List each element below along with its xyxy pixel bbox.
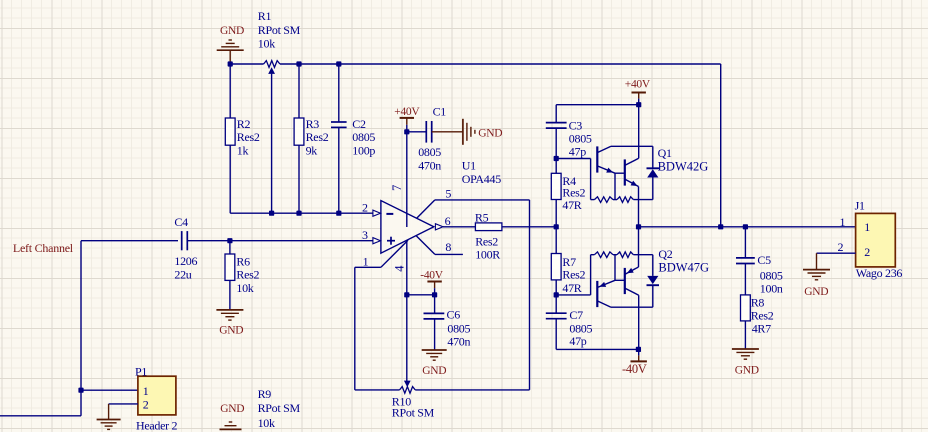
- svg-text:0805: 0805: [418, 145, 441, 159]
- label Q1: [658, 146, 709, 174]
- svg-text:1206: 1206: [174, 254, 197, 268]
- svg-text:1k: 1k: [237, 143, 249, 157]
- svg-text:GND: GND: [422, 365, 446, 377]
- svg-text:0805: 0805: [760, 268, 783, 282]
- pin 4 number: [392, 265, 406, 272]
- capacitor C3: [546, 105, 567, 159]
- junction inverting rail at R3: [296, 211, 301, 216]
- resistor R4: [551, 159, 561, 227]
- op-amp U1 OPA445 triangle: [381, 201, 434, 254]
- svg-text:470n: 470n: [447, 334, 470, 348]
- svg-text:2: 2: [143, 397, 149, 411]
- label Q2: [658, 247, 709, 275]
- resistor R2: [225, 64, 235, 213]
- pin 5 wire (offset): [416, 200, 529, 219]
- wire +40V rail top (C3 corner to Q1 collector): [556, 104, 639, 106]
- wire input to P1 pin1: [81, 389, 138, 391]
- svg-text:-40V: -40V: [420, 269, 443, 281]
- junction top rail at C2: [336, 61, 341, 66]
- svg-text:Res2: Res2: [306, 130, 329, 144]
- svg-text:47p: 47p: [569, 334, 586, 348]
- svg-text:Q1: Q1: [658, 146, 672, 160]
- net label Left Channel: [13, 241, 74, 255]
- junction top rail at R3: [296, 61, 301, 66]
- junction -40V node: [432, 292, 437, 297]
- power port +40V (output stage): [625, 79, 651, 105]
- label R5: [475, 210, 500, 261]
- transistor Q1 BDW42G: [591, 146, 659, 227]
- junction top rail at R2/GND: [228, 61, 233, 66]
- svg-text:GND: GND: [220, 403, 244, 415]
- svg-text:GND: GND: [735, 364, 759, 376]
- svg-text:0805: 0805: [569, 132, 592, 146]
- pin 5 number: [445, 187, 451, 201]
- potentiometer R1: [264, 61, 280, 214]
- capacitor C6: [424, 295, 445, 350]
- svg-text:1: 1: [143, 384, 149, 398]
- junction inverting rail at R1 wiper: [269, 211, 274, 216]
- svg-text:10k: 10k: [258, 37, 275, 51]
- svg-text:Left Channel: Left Channel: [13, 241, 74, 255]
- svg-text:2: 2: [864, 245, 870, 259]
- wire C4 to op-amp pin 3: [230, 240, 374, 242]
- pin 1 number: [363, 255, 369, 269]
- label Header 2: [136, 418, 178, 432]
- svg-text:-40V: -40V: [622, 362, 647, 376]
- pin 2 of P1: [109, 397, 149, 411]
- resistor R5: [475, 223, 502, 231]
- svg-text:8: 8: [445, 240, 451, 254]
- svg-text:C7: C7: [569, 308, 583, 322]
- pin 7 wire (V+): [406, 132, 408, 227]
- label C7: [569, 308, 592, 348]
- junction inverting rail at C2: [336, 211, 341, 216]
- svg-text:9k: 9k: [306, 143, 318, 157]
- pin 6 output arrow: [435, 224, 443, 230]
- svg-text:7: 7: [390, 185, 404, 191]
- svg-text:R2: R2: [237, 117, 251, 131]
- label R9: [258, 387, 301, 430]
- wire inverting rail (R2 bottom to op-amp pin 2): [230, 212, 373, 214]
- wire feedback right (R10 to pin5 leg): [415, 200, 529, 390]
- ground symbol GND at R6: [216, 310, 243, 336]
- pin 1 wire (offset): [355, 240, 408, 267]
- svg-text:R3: R3: [306, 117, 320, 131]
- svg-text:100R: 100R: [475, 247, 500, 261]
- svg-text:100p: 100p: [352, 143, 375, 157]
- wire Left Channel input: [81, 241, 178, 391]
- resistor R6: [225, 241, 235, 310]
- svg-text:2: 2: [362, 201, 368, 215]
- wire emitter junction to output: [639, 226, 856, 228]
- junction pin4 node: [404, 292, 409, 297]
- pin 2 number: [362, 201, 368, 215]
- svg-text:C1: C1: [433, 104, 447, 118]
- svg-text:C3: C3: [569, 118, 583, 132]
- svg-text:22u: 22u: [174, 267, 191, 281]
- label C3: [569, 118, 592, 158]
- power port -40V (op-amp supply): [420, 269, 443, 295]
- wire pin4 to -40V node: [407, 294, 435, 296]
- svg-text:BDW42G: BDW42G: [658, 159, 709, 173]
- label R4: [562, 174, 585, 212]
- pin 1 of P1: [143, 384, 149, 398]
- resistor R3: [294, 64, 304, 213]
- pin 2 of J1: [817, 240, 871, 259]
- wire R5 to driver node: [502, 226, 556, 228]
- junction emitter node: [636, 224, 641, 229]
- capacitor C7: [546, 295, 567, 350]
- label R8: [751, 295, 774, 335]
- label C4: [174, 215, 197, 281]
- label P1: [135, 364, 147, 378]
- wire top rail (GND node to R1 left): [230, 63, 263, 65]
- svg-text:RPot SM: RPot SM: [258, 401, 301, 415]
- power port -40V (output stage): [622, 349, 647, 376]
- resistor R8: [741, 264, 751, 350]
- svg-text:GND: GND: [804, 286, 828, 298]
- svg-text:10k: 10k: [236, 281, 253, 295]
- svg-text:RPot SM: RPot SM: [392, 406, 435, 420]
- svg-text:5: 5: [445, 187, 451, 201]
- svg-text:RPot SM: RPot SM: [258, 23, 301, 37]
- ground symbol GND at J1: [803, 253, 830, 298]
- power port +40V (op-amp supply): [394, 106, 420, 132]
- svg-text:4R7: 4R7: [752, 321, 771, 335]
- capacitor C2: [331, 64, 347, 213]
- junction output node at R4/R5: [554, 224, 559, 229]
- svg-text:47R: 47R: [562, 198, 581, 212]
- ground symbol GND at R8: [732, 349, 759, 376]
- svg-text:470n: 470n: [418, 158, 441, 172]
- capacitor C1: [407, 121, 432, 143]
- pin 8 number: [445, 240, 451, 254]
- wire +40V to Q1 collector: [638, 105, 640, 159]
- pin 3 number: [362, 228, 368, 242]
- svg-text:P1: P1: [135, 364, 147, 378]
- svg-text:GND: GND: [478, 127, 502, 139]
- pin 1 of J1: [840, 215, 871, 234]
- svg-text:Res2: Res2: [751, 308, 774, 322]
- wire input return to edge: [0, 390, 81, 416]
- svg-text:Header 2: Header 2: [136, 418, 178, 432]
- svg-text:J1: J1: [855, 198, 865, 212]
- svg-text:Res2: Res2: [236, 268, 259, 282]
- label C5: [757, 253, 783, 296]
- svg-text:C2: C2: [352, 117, 366, 131]
- svg-text:R9: R9: [258, 387, 272, 401]
- connector P1 body: [138, 376, 176, 415]
- wire pin6 to R5: [443, 226, 475, 228]
- svg-text:1: 1: [840, 215, 846, 229]
- svg-text:GND: GND: [219, 324, 243, 336]
- junction -40V rail: [636, 347, 641, 352]
- svg-text:+40V: +40V: [394, 106, 420, 118]
- wire feedback vertical: [720, 64, 722, 227]
- svg-text:47R: 47R: [562, 281, 581, 295]
- svg-text:1: 1: [864, 220, 870, 234]
- connector J1 body: [856, 213, 896, 267]
- label C6: [447, 307, 471, 348]
- capacitor C5: [736, 227, 755, 264]
- svg-text:C6: C6: [447, 307, 461, 321]
- svg-text:4: 4: [392, 265, 406, 272]
- svg-text:Res2: Res2: [237, 130, 260, 144]
- junction Q2 base node: [554, 292, 559, 297]
- ground symbol GND at P1: [97, 404, 121, 430]
- svg-text:R8: R8: [751, 295, 765, 309]
- junction feedback tap: [718, 224, 723, 229]
- svg-text:R5: R5: [475, 210, 489, 224]
- junction at R6 top: [227, 238, 232, 243]
- wire feedback bottom (pin1 leg): [355, 267, 400, 390]
- svg-text:10k: 10k: [258, 416, 275, 430]
- ground symbol GND at C6: [422, 350, 447, 377]
- ground symbol GND at R9 (cropped): [220, 403, 245, 429]
- svg-text:R1: R1: [258, 9, 272, 23]
- junction +40V rail: [636, 102, 641, 107]
- svg-text:R6: R6: [236, 255, 250, 269]
- svg-text:Q2: Q2: [658, 247, 672, 261]
- svg-text:47p: 47p: [569, 145, 586, 159]
- pin 2 arrow (inverting input): [373, 210, 381, 216]
- wire Q2 base: [556, 294, 590, 296]
- label R2: [237, 117, 260, 157]
- potentiometer R10: [400, 381, 416, 394]
- svg-text:0805: 0805: [352, 130, 375, 144]
- label R7: [562, 255, 585, 295]
- label C2: [352, 117, 375, 157]
- svg-text:OPA445: OPA445: [462, 172, 501, 186]
- pin 6 number: [445, 214, 451, 228]
- pin 4 wire (V-): [406, 240, 408, 381]
- label C1: [418, 104, 446, 172]
- junction C5 tap: [743, 224, 748, 229]
- svg-text:100n: 100n: [760, 282, 783, 296]
- op-amp plus marker: [387, 237, 395, 245]
- svg-text:3: 3: [362, 228, 368, 242]
- label J1: [855, 198, 865, 212]
- label R10: [392, 394, 435, 419]
- wire Q1 base: [556, 158, 590, 160]
- label R6: [236, 255, 259, 295]
- svg-text:Res2: Res2: [562, 268, 585, 282]
- junction pin7/C1 node: [404, 129, 409, 134]
- op-amp minus marker: [386, 213, 393, 215]
- junction Q1 base node: [554, 156, 559, 161]
- svg-text:+40V: +40V: [625, 79, 651, 91]
- svg-text:U1: U1: [462, 158, 476, 172]
- pin 8 wire (offset): [416, 236, 463, 255]
- svg-text:C5: C5: [757, 253, 771, 267]
- wire C7 bottom to -40V rail: [556, 348, 638, 350]
- wire top rail (R1 to feedback corner): [280, 63, 721, 65]
- label R3: [306, 117, 329, 157]
- pin 7 number: [390, 185, 404, 191]
- transistor Q2 BDW47G: [591, 227, 659, 307]
- pin 3 arrow (non-inverting input): [373, 238, 381, 244]
- wire Q2 collector to -40V: [638, 295, 640, 349]
- label U1: [462, 158, 501, 186]
- ground symbol GND (top left): [217, 25, 244, 64]
- label R1 designator: [258, 9, 301, 51]
- svg-text:6: 6: [445, 214, 451, 228]
- svg-text:BDW47G: BDW47G: [658, 260, 709, 274]
- svg-text:C4: C4: [174, 215, 188, 229]
- svg-text:2: 2: [838, 240, 844, 254]
- svg-text:GND: GND: [220, 25, 244, 37]
- resistor R7: [551, 227, 561, 295]
- svg-text:0805: 0805: [447, 321, 470, 335]
- svg-text:1: 1: [363, 255, 369, 269]
- junction P1 input: [78, 388, 83, 393]
- capacitor C4: [182, 231, 230, 250]
- label Wago 236: [856, 266, 903, 280]
- svg-text:Wago 236: Wago 236: [856, 266, 903, 280]
- ground symbol GND at C1 (rotated): [432, 119, 503, 145]
